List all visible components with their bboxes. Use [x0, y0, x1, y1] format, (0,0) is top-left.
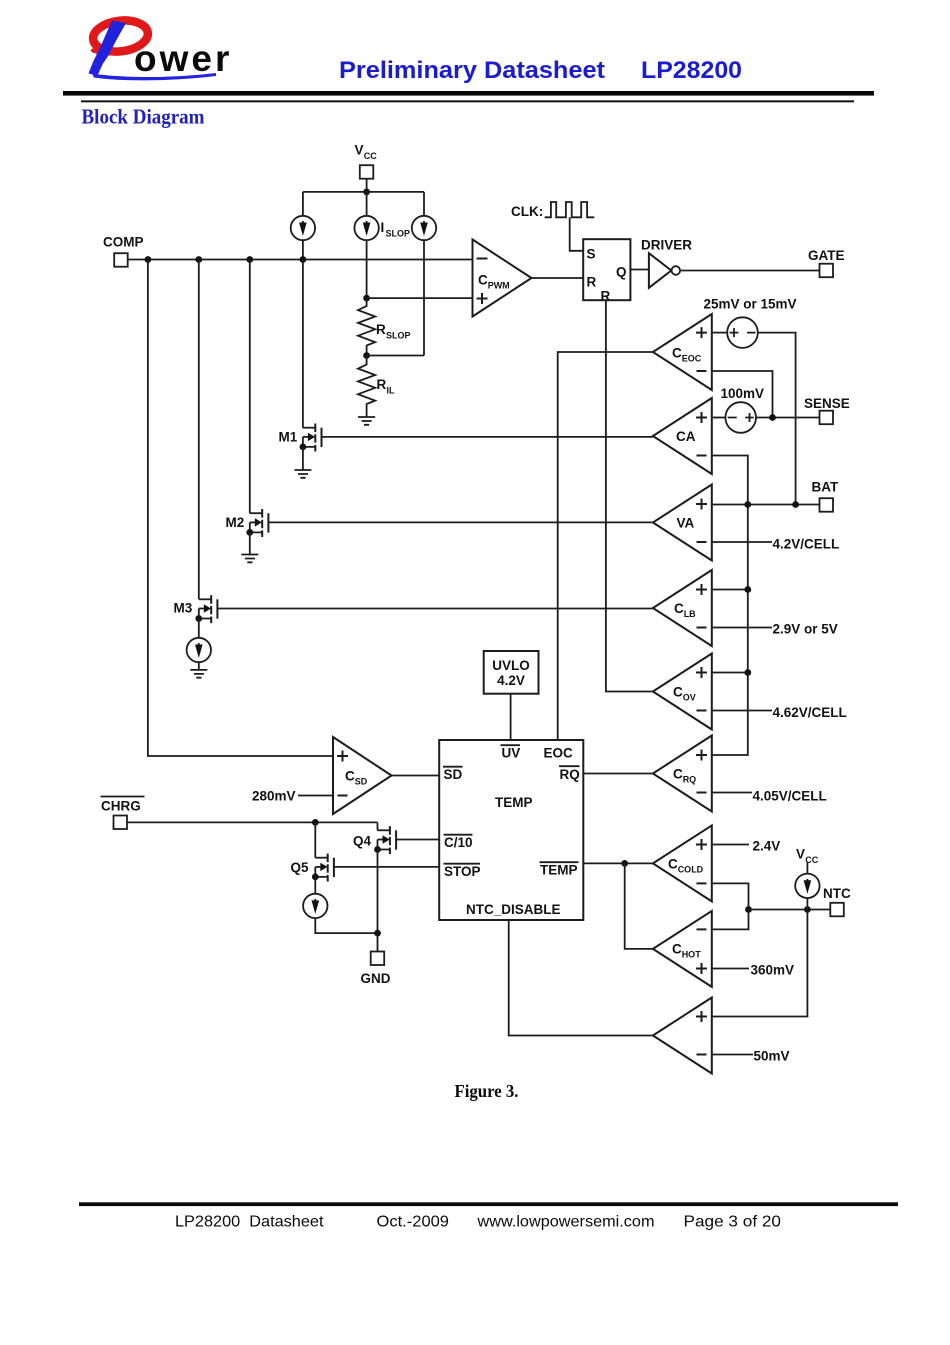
- node comp b: [195, 256, 202, 263]
- svg-text:SD: SD: [444, 767, 463, 782]
- terminal GND: [361, 952, 391, 987]
- svg-text:GATE: GATE: [808, 248, 845, 263]
- wire crq minus stub: [712, 792, 752, 794]
- svg-text:SLOP: SLOP: [386, 331, 411, 341]
- svg-text:4.05V/CELL: 4.05V/CELL: [753, 789, 827, 804]
- wire comp to M2 drain: [249, 260, 251, 514]
- svg-text:COMP: COMP: [103, 235, 144, 250]
- op-amp CA: [653, 398, 712, 474]
- svg-text:Page 3 of 20: Page 3 of 20: [684, 1214, 782, 1231]
- op-amp CHOT: [653, 911, 712, 987]
- wire I1 to comp rail: [302, 240, 304, 259]
- wire chrg line: [127, 821, 378, 823]
- logo blue brush stroke: [89, 21, 127, 76]
- wire va minus stub: [712, 541, 772, 543]
- buffer DRIVER: [641, 238, 692, 288]
- op-amp CRQ: [653, 736, 712, 812]
- node bat 25mv: [792, 501, 799, 508]
- svg-text:EOC: EOC: [682, 354, 702, 364]
- node ntc: [804, 906, 811, 913]
- svg-text:100mV: 100mV: [721, 386, 765, 401]
- svg-text:PWM: PWM: [488, 281, 510, 291]
- current source under Q5: [303, 894, 327, 918]
- wire va out to M2 gate: [268, 521, 653, 523]
- svg-text:2.4V: 2.4V: [753, 839, 781, 854]
- latch U1 SR: [583, 239, 630, 303]
- svg-text:C: C: [673, 685, 683, 700]
- transistor M1: [279, 424, 322, 471]
- svg-text:CHRG: CHRG: [101, 799, 141, 814]
- svg-text:M2: M2: [226, 515, 245, 530]
- label VCC ntc: [796, 847, 819, 866]
- svg-text:EOC: EOC: [544, 746, 574, 761]
- node bat bus: [744, 501, 751, 508]
- svg-text:NTC: NTC: [823, 886, 851, 901]
- wire rslop node to cpwm plus: [367, 297, 473, 299]
- wire rail drops to sources: [303, 192, 424, 216]
- svg-text:HOT: HOT: [682, 950, 702, 960]
- svg-text:ower: ower: [134, 38, 232, 79]
- box UVLO: [484, 651, 539, 694]
- node chrg: [312, 819, 319, 826]
- wire clb plus to bus: [712, 589, 748, 591]
- svg-text:C: C: [478, 273, 488, 288]
- transistor M2: [226, 509, 269, 555]
- node comp c: [246, 256, 253, 263]
- svg-text:R: R: [377, 377, 387, 392]
- transistor M3: [174, 595, 218, 638]
- voltage source 100mV: [721, 386, 765, 433]
- svg-text:R: R: [587, 275, 597, 290]
- svg-text:DRIVER: DRIVER: [641, 238, 692, 253]
- node comp a: [145, 256, 152, 263]
- svg-text:BAT: BAT: [812, 480, 839, 495]
- svg-text:LP28200 Datasheet: LP28200 Datasheet: [175, 1214, 324, 1231]
- wire ca out to M1 gate: [322, 436, 653, 438]
- wire chrg to q4 drain: [377, 822, 379, 830]
- footer rule: [79, 1202, 898, 1206]
- wire q5 gate to temp stop: [334, 866, 439, 868]
- svg-text:Preliminary Datasheet: Preliminary Datasheet: [339, 57, 605, 84]
- terminal SENSE: [804, 396, 850, 424]
- svg-text:COLD: COLD: [678, 865, 704, 875]
- node comp d: [300, 256, 307, 263]
- svg-text:S: S: [587, 247, 596, 262]
- wire COMP rail: [128, 259, 473, 261]
- ground under M3: [190, 670, 207, 678]
- svg-text:NTC_DISABLE: NTC_DISABLE: [466, 902, 561, 917]
- wire chrg to q5 drain: [314, 822, 316, 857]
- wire temp out to chot: [625, 863, 653, 949]
- svg-text:VA: VA: [677, 516, 695, 531]
- wire 100mV to SENSE: [756, 417, 820, 419]
- svg-text:C: C: [674, 601, 684, 616]
- wire vcc to ntc source: [806, 863, 808, 874]
- wire comp to M1 drain: [302, 260, 304, 428]
- svg-text:OV: OV: [683, 693, 696, 703]
- wire rslop bottom to I3: [367, 355, 424, 357]
- wire comp to M3 drain: [198, 260, 200, 600]
- svg-text:SD: SD: [355, 777, 368, 787]
- op-amp CSD: [333, 737, 392, 814]
- terminal BAT: [812, 480, 839, 512]
- op-amp CEOC: [653, 314, 712, 390]
- wire ceoc plus to source: [712, 332, 727, 334]
- svg-text:STOP: STOP: [444, 864, 481, 879]
- wire bat line: [712, 504, 820, 506]
- wire to gnd terminal: [377, 933, 379, 951]
- wire q4 gate to temp c10: [396, 839, 439, 841]
- svg-text:M3: M3: [174, 601, 193, 616]
- wire clk to latch S: [570, 217, 584, 251]
- wire ceoc minus to sense node: [712, 371, 773, 418]
- wire 280mV to csd minus: [298, 795, 333, 797]
- svg-text:C: C: [672, 942, 682, 957]
- current source I2 ISLOP: [354, 216, 410, 240]
- wire chot plus stub: [712, 968, 749, 970]
- ground under M2: [241, 555, 258, 563]
- clock CLK waveform: [511, 202, 594, 219]
- op-amp COV: [653, 654, 712, 730]
- wire ccold minus chot minus link: [712, 883, 749, 929]
- svg-text:4.2V/CELL: 4.2V/CELL: [773, 537, 840, 552]
- op-amp bottom: [653, 998, 712, 1074]
- svg-text:V: V: [796, 847, 805, 862]
- wire cov minus stub: [712, 710, 772, 712]
- node gnd: [374, 930, 381, 937]
- header thick rule: [63, 91, 874, 96]
- wire ntc line: [749, 909, 831, 911]
- voltage source 25mV: [704, 297, 797, 348]
- wire ca plus to 100mV: [712, 417, 726, 419]
- svg-text:RQ: RQ: [683, 775, 697, 785]
- current source under M3: [187, 638, 211, 662]
- node temp out: [621, 860, 628, 867]
- wire clb out to M3 gate: [217, 608, 653, 610]
- svg-text:280mV: 280mV: [252, 789, 296, 804]
- svg-text:TEMP: TEMP: [540, 863, 578, 878]
- svg-text:UV: UV: [502, 746, 521, 761]
- svg-text:SENSE: SENSE: [804, 396, 850, 411]
- svg-text:GND: GND: [361, 971, 391, 986]
- op-amp CPWM: [473, 240, 532, 317]
- op-amp CLB: [653, 570, 712, 646]
- terminal COMP: [103, 235, 144, 267]
- svg-text:50mV: 50mV: [754, 1049, 790, 1064]
- logo blue underline swoosh: [92, 73, 216, 80]
- node vcc rail: [363, 189, 370, 196]
- svg-text:LP28200: LP28200: [641, 57, 742, 84]
- svg-text:Figure 3.: Figure 3.: [455, 1081, 519, 1101]
- transistor Q5: [291, 854, 334, 882]
- wire vcc rail: [303, 191, 424, 193]
- svg-text:R: R: [376, 322, 386, 337]
- terminal GATE: [808, 248, 845, 277]
- resistor RIL: [358, 356, 395, 418]
- svg-text:UVLO: UVLO: [492, 658, 530, 673]
- svg-text:C/10: C/10: [444, 835, 473, 850]
- svg-text:Q5: Q5: [291, 860, 310, 875]
- wire ccold plus stub: [712, 844, 749, 846]
- wire VCC to rail: [366, 179, 368, 192]
- svg-text:IL: IL: [387, 386, 396, 396]
- svg-text:C: C: [673, 767, 683, 782]
- current source I1: [291, 216, 315, 240]
- footer text: [175, 1214, 781, 1231]
- wire I2 to rslop node: [366, 240, 368, 298]
- wire q4 source down: [377, 850, 379, 934]
- svg-text:M1: M1: [279, 430, 298, 445]
- node rslop bottom: [363, 352, 370, 359]
- wire ntc to bottom comparator plus: [712, 910, 808, 1017]
- svg-text:2.9V or 5V: 2.9V or 5V: [773, 622, 838, 637]
- wire temp out line: [583, 862, 653, 864]
- svg-text:CC: CC: [364, 151, 377, 161]
- svg-text:CLK:: CLK:: [511, 204, 543, 219]
- wire bottom minus stub: [712, 1054, 753, 1056]
- svg-text:www.lowpowersemi.com: www.lowpowersemi.com: [476, 1214, 654, 1231]
- transistor Q4: [353, 826, 396, 854]
- svg-text:Oct.-2009: Oct.-2009: [377, 1214, 450, 1231]
- terminal NTC: [823, 886, 851, 916]
- svg-text:4.62V/CELL: 4.62V/CELL: [773, 705, 847, 720]
- resistor RSLOP: [358, 298, 411, 355]
- wire q5 source to current source: [314, 877, 316, 894]
- wire csd out to temp sd: [392, 775, 440, 777]
- wire cov plus to bus: [712, 672, 748, 674]
- svg-text:C: C: [672, 346, 682, 361]
- svg-text:LB: LB: [684, 609, 696, 619]
- terminal VCC: [355, 143, 378, 179]
- wire M3 src to ground: [198, 662, 200, 670]
- wire crq out to temp rq: [583, 773, 653, 775]
- header thin rule: [81, 100, 854, 102]
- box TEMP logic: [439, 740, 583, 920]
- svg-text:Q: Q: [616, 265, 627, 280]
- wire latch Q to driver: [630, 269, 649, 271]
- svg-text:SLOP: SLOP: [386, 229, 411, 239]
- node ntc link: [745, 906, 752, 913]
- wire 25mV to bat line: [758, 333, 796, 505]
- svg-text:V: V: [355, 143, 364, 158]
- svg-text:Block Diagram: Block Diagram: [82, 105, 205, 129]
- current source NTC: [795, 874, 819, 898]
- svg-text:Q4: Q4: [353, 834, 372, 849]
- wire clb minus stub: [712, 627, 772, 629]
- logo red P: [91, 17, 149, 54]
- svg-text:4.2V: 4.2V: [497, 673, 525, 688]
- wire I3 down to rslop bottom: [423, 240, 425, 355]
- wire comp to csd plus: [148, 260, 333, 757]
- wire driver to GATE: [680, 270, 819, 272]
- ground under M1: [294, 470, 311, 478]
- wire latch R2 to COV out: [606, 300, 653, 691]
- wire ntc source to node: [806, 898, 808, 910]
- op-amp VA: [653, 485, 712, 561]
- svg-text:CA: CA: [676, 429, 696, 444]
- wire cpwm out to latch R: [532, 277, 584, 279]
- svg-text:C: C: [345, 769, 355, 784]
- svg-text:RQ: RQ: [560, 767, 580, 782]
- node rslop top: [363, 295, 370, 302]
- node clb bus: [744, 586, 751, 593]
- op-amp CCOLD: [653, 825, 712, 901]
- node cov bus: [744, 669, 751, 676]
- svg-text:25mV or 15mV: 25mV or 15mV: [704, 297, 797, 312]
- current source I3: [412, 216, 436, 240]
- ground under RIL: [358, 417, 375, 425]
- svg-text:360mV: 360mV: [751, 963, 795, 978]
- wire uvlo to temp uv: [510, 694, 512, 740]
- terminal CHRG: [101, 797, 145, 830]
- wire ceoc out to temp eoc: [558, 352, 653, 740]
- wire q5 src to gnd node: [315, 918, 377, 933]
- node sense: [769, 414, 776, 421]
- svg-text:I: I: [381, 220, 385, 235]
- wire bottom out to ntc_disable: [509, 920, 653, 1036]
- svg-text:C: C: [668, 857, 678, 872]
- svg-text:TEMP: TEMP: [495, 795, 533, 810]
- wire ca minus to bus: [712, 456, 748, 756]
